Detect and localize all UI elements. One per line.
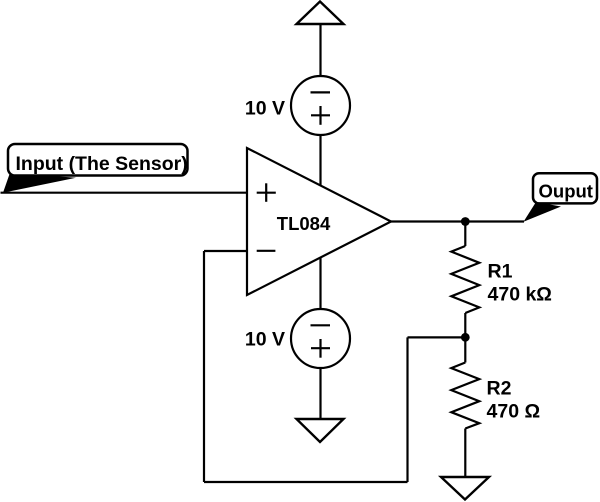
wire V+ arrow to V1 [319,24,321,77]
node junction output / R1 [461,217,470,226]
input flag tail [3,173,76,193]
svg-text:R2: R2 [487,378,512,400]
wire V1 to op-amp top [319,134,321,187]
resistor R2 [451,337,479,477]
ground under R2 [441,477,489,500]
output flag tail [524,202,562,222]
power supply V+ arrow [297,2,344,25]
resistor R1 [451,222,479,338]
wire input node to op-amp + input [1,192,248,194]
wire feedback to R1/R2 junction [408,336,466,338]
ground under V2 [297,419,344,442]
svg-text:10 V: 10 V [245,98,285,120]
svg-text:TL084: TL084 [277,213,331,234]
wire op-amp bottom to V2 [319,257,321,311]
svg-text:Input (The Sensor): Input (The Sensor) [16,153,188,175]
wire op-amp output [391,220,524,222]
wire V2 to ground [319,368,321,420]
svg-text:470 kΩ: 470 kΩ [488,283,552,305]
voltage source V1 [291,76,350,135]
op-amp U1 [247,148,391,295]
node junction R1 / R2 / feedback [461,333,470,342]
voltage source V2 [291,309,350,368]
svg-text:R1: R1 [488,261,513,283]
wire feedback bottom horizontal [204,481,408,483]
svg-text:Ouput: Ouput [539,181,593,202]
wire feedback left vertical [203,251,205,482]
svg-text:470 Ω: 470 Ω [487,401,541,423]
wire feedback right vertical [406,337,408,482]
input flag Input (The Sensor) [8,144,188,176]
svg-text:10 V: 10 V [245,329,285,351]
wire feedback stub to - input [204,250,247,252]
output flag Ouput [533,173,597,203]
